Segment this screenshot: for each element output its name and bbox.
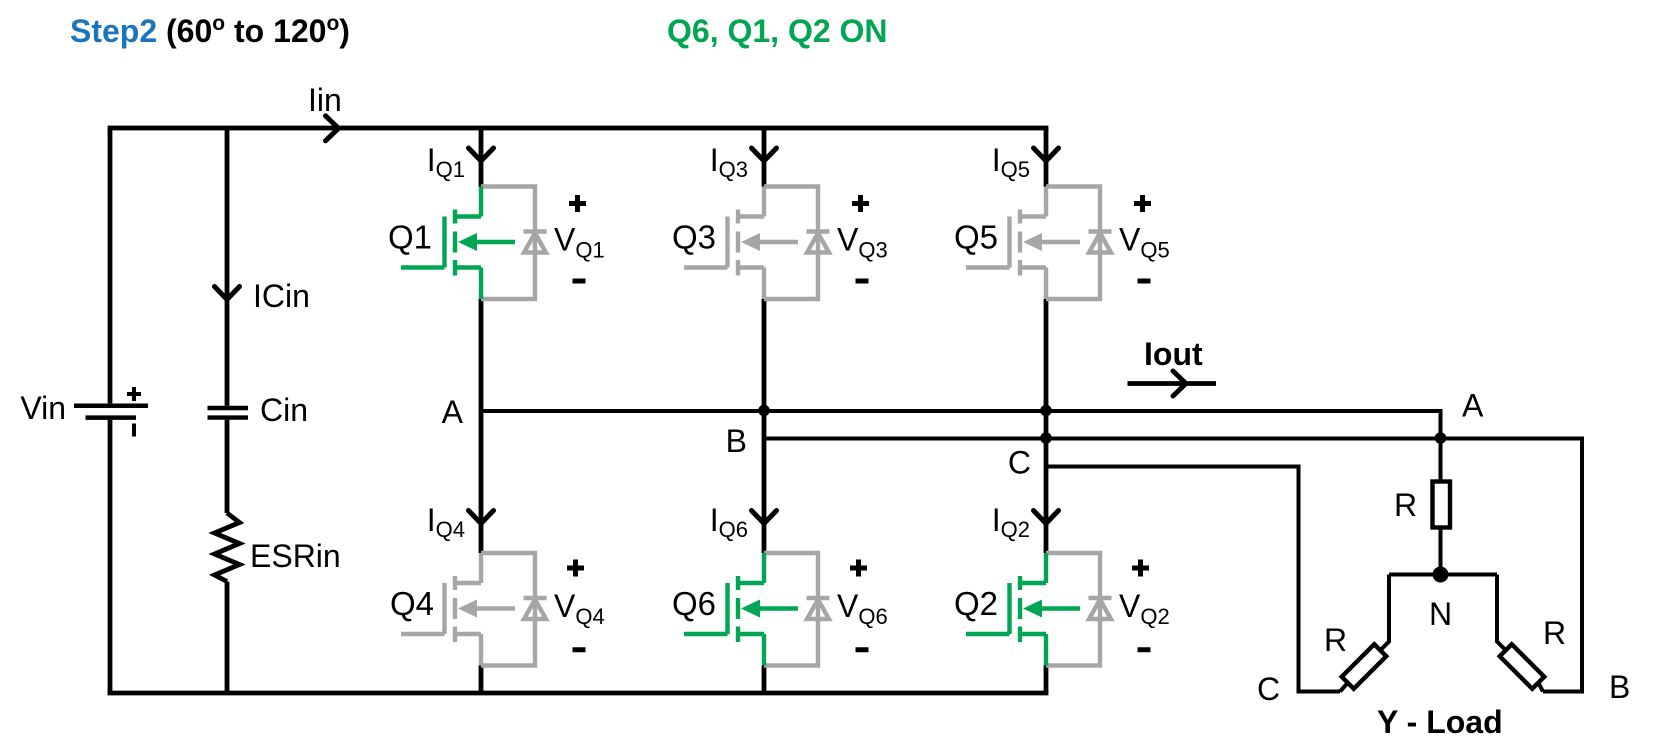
svg-text:Step2: Step2 xyxy=(70,13,157,49)
svg-text:ICin: ICin xyxy=(253,278,310,314)
svg-text:R: R xyxy=(1394,487,1417,523)
svg-text:C: C xyxy=(1257,671,1280,707)
svg-text:Q6: Q6 xyxy=(672,585,716,622)
svg-text:Iout: Iout xyxy=(1144,336,1203,372)
svg-text:A: A xyxy=(442,394,464,430)
svg-text:R: R xyxy=(1324,622,1347,658)
svg-text:Q2: Q2 xyxy=(954,585,998,622)
svg-text:VQ3: VQ3 xyxy=(837,222,888,263)
svg-text:Vin: Vin xyxy=(20,390,66,426)
svg-text:Y - Load: Y - Load xyxy=(1377,704,1503,740)
svg-text:Q5: Q5 xyxy=(954,219,998,256)
svg-text:(60o to 120o): (60o to 120o) xyxy=(166,12,350,49)
svg-text:IQ5: IQ5 xyxy=(992,142,1030,182)
svg-text:B: B xyxy=(726,423,747,459)
svg-text:IQ6: IQ6 xyxy=(710,502,748,542)
svg-text:B: B xyxy=(1609,669,1630,705)
svg-text:IQ3: IQ3 xyxy=(710,142,748,182)
svg-text:IQ2: IQ2 xyxy=(992,502,1030,542)
svg-text:Cin: Cin xyxy=(260,392,308,428)
svg-text:Q1: Q1 xyxy=(388,219,432,256)
svg-text:IQ1: IQ1 xyxy=(427,142,465,182)
svg-text:Iin: Iin xyxy=(308,82,342,118)
svg-text:Q6, Q1, Q2 ON: Q6, Q1, Q2 ON xyxy=(667,13,888,49)
svg-text:VQ4: VQ4 xyxy=(554,588,605,629)
svg-text:A: A xyxy=(1462,388,1484,424)
svg-text:Q4: Q4 xyxy=(390,585,434,622)
svg-text:R: R xyxy=(1543,615,1566,651)
svg-text:IQ4: IQ4 xyxy=(427,502,465,542)
svg-text:N: N xyxy=(1429,596,1452,632)
svg-text:VQ1: VQ1 xyxy=(554,222,605,263)
svg-text:VQ6: VQ6 xyxy=(837,588,888,629)
svg-text:C: C xyxy=(1008,445,1031,481)
svg-text:ESRin: ESRin xyxy=(250,538,341,574)
svg-text:VQ5: VQ5 xyxy=(1119,222,1170,263)
svg-text:VQ2: VQ2 xyxy=(1119,588,1170,629)
svg-text:Q3: Q3 xyxy=(672,219,716,256)
